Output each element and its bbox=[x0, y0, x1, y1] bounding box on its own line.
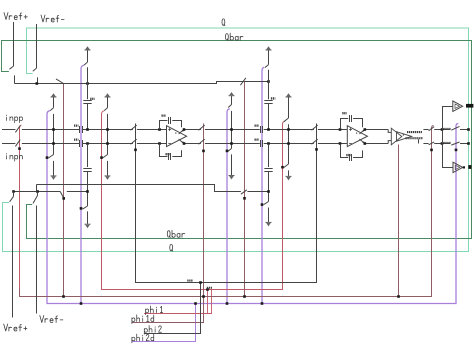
wire phi1 label stub (red) bbox=[144, 290, 211, 314]
port arrow down (x=107 column) bbox=[105, 176, 111, 180]
capacitor C11 (U2 top feedback) bbox=[350, 115, 352, 122]
label row1 net bbox=[443, 128, 451, 130]
wire switch to rail bbox=[87, 67, 89, 83]
label Qbar (bottom) bbox=[167, 230, 185, 237]
junction phi2d rail x=195.5 bbox=[194, 302, 197, 305]
buffer U4 inner mark bbox=[455, 104, 460, 108]
wire inpn line (node vin) segment 12 bbox=[460, 143, 469, 145]
switch S9 (phi2d) blade bbox=[50, 108, 53, 111]
capacitor C2 bbox=[83, 169, 91, 172]
node Q (light green net, top and bottom rails) bbox=[3, 28, 469, 252]
junction row2/buffer column bbox=[441, 142, 444, 145]
switch S5 (phi2d) blade bbox=[84, 62, 88, 65]
wire switch to lines bbox=[107, 114, 109, 155]
wire phi2 loop (black) bbox=[136, 124, 317, 283]
label inpn bbox=[7, 153, 23, 161]
junction phi2d tap bbox=[80, 207, 83, 210]
wire inpp line (node vip) segment 9 bbox=[365, 129, 389, 131]
port arrow (x=288.5 column) bbox=[286, 93, 292, 97]
switch S15 (line1, phi2) blade bbox=[131, 125, 137, 130]
wire phi1d label stub (dark red) bbox=[132, 297, 204, 323]
wire inpp line (node vip) segment 11 bbox=[434, 129, 450, 131]
switch S20 (phi2d) blade bbox=[228, 148, 231, 151]
label Q (top) bbox=[222, 19, 225, 26]
switch S22 (phi1) blade bbox=[284, 164, 289, 168]
label Vref+ (top) bbox=[4, 13, 27, 20]
junction line1 x=53 bbox=[52, 128, 55, 131]
wire arrow to switch bbox=[53, 97, 55, 107]
wire phi2d main loop (purple) bbox=[47, 111, 458, 304]
wire phi2d branch x=262 (purple) bbox=[262, 67, 264, 303]
label Q (bottom) bbox=[170, 244, 173, 251]
wire line2 to C4 bbox=[268, 144, 270, 168]
wire U1 bottom feedback bbox=[160, 144, 168, 157]
op-amp U1 input marks bbox=[168, 128, 176, 144]
junction phi2d tap bbox=[226, 150, 229, 153]
port arrow (top of C3 column) bbox=[266, 46, 272, 50]
junction line2/C1 bbox=[86, 142, 89, 145]
switch S14 (phi2d) blade bbox=[264, 202, 269, 205]
wire phi1d branch x=63.5 (dark red) bbox=[63, 84, 65, 297]
wire arrow to switch bbox=[268, 50, 270, 64]
junction phi2d rail x=262 bbox=[261, 302, 264, 305]
wire inpn line (node vin) segment 10 bbox=[423, 143, 428, 145]
junction U1 inn bbox=[158, 142, 161, 145]
wire phi1d main loop (dark red) bbox=[20, 125, 434, 296]
capacitor C9 (U1 top feedback) bbox=[169, 117, 171, 124]
wire ref rail upper bbox=[37, 185, 241, 192]
junction phi1 rail / label bbox=[206, 288, 209, 291]
junction row2/Qbar rail bbox=[467, 142, 470, 145]
port arrow (x=53 column) bbox=[51, 93, 57, 97]
port arrow (x=107 column) bbox=[105, 93, 111, 97]
wire stub Vref- bottom bbox=[37, 192, 39, 196]
junction U2 inp bbox=[339, 128, 342, 131]
port arrow down (C2 column) bbox=[85, 224, 91, 228]
junction line1 x=107 bbox=[106, 128, 109, 131]
wire row2 jog stub bbox=[418, 139, 420, 143]
port arrow down (x=53 column) bbox=[51, 176, 57, 180]
junction line1/C3 bbox=[267, 128, 270, 131]
wire inpp line (node vip) segment 8 bbox=[318, 129, 347, 131]
switch S10 (phi2d) blade bbox=[48, 155, 53, 159]
capacitor C6 (series, inpn) bbox=[80, 140, 83, 147]
wire ref rail upper right bbox=[247, 191, 268, 193]
wire phi1d branch x=398.5 (dark red) bbox=[398, 145, 400, 297]
junction phi1d rail x=63.5 bbox=[62, 295, 65, 298]
switch S16 (line2, phi2) blade bbox=[131, 139, 137, 144]
wire to buffer U4 bbox=[442, 106, 453, 108]
wire C2 to ref rail bbox=[87, 172, 89, 192]
junction rail/C1 column bbox=[86, 82, 89, 85]
switch S23 (line1, phi2) blade bbox=[312, 125, 318, 130]
label Vref- (bottom) bbox=[40, 316, 63, 323]
wire Vref- bottom drop bbox=[36, 206, 38, 314]
junction line2 x=231.5 bbox=[230, 142, 233, 145]
value label C10 bbox=[166, 153, 170, 155]
value label C9 bbox=[162, 114, 166, 116]
wire U1 bottom feedback right bbox=[172, 150, 181, 156]
wire inpn line (node vin) segment 2 bbox=[22, 143, 79, 145]
wire switch to lines bbox=[231, 111, 233, 148]
wire line2 to C2 bbox=[87, 144, 89, 168]
junction row1/buffer column bbox=[441, 128, 444, 131]
op-amp U2 output arrow - bbox=[359, 139, 364, 144]
wire S1 to rail bbox=[14, 75, 16, 83]
junction ref rail / C3 column bbox=[267, 190, 270, 193]
op-amp U2 input marks bbox=[349, 128, 357, 144]
junction phi2 tap bbox=[134, 149, 137, 152]
wire arrow to switch bbox=[87, 50, 89, 62]
wire inpn line (node vin) segment 4 bbox=[137, 143, 167, 145]
junction line2 x=107 bbox=[106, 142, 109, 145]
wire Vref+ bottom drop bbox=[12, 206, 14, 318]
wire U3 input jog + bbox=[388, 130, 391, 133]
switch S4 (rail, phi1d) blade bbox=[240, 78, 246, 85]
wire inpp line (node vip) segment 2 bbox=[22, 129, 79, 131]
label phi1 bbox=[146, 306, 163, 315]
junction phi1d tap bbox=[243, 197, 246, 200]
wire rail to C1 bbox=[87, 84, 89, 100]
switch S32 (Vref- bottom) blade bbox=[33, 196, 38, 204]
junction line1/C1 bbox=[86, 128, 89, 131]
comparator U3 internal dot bbox=[403, 134, 404, 135]
op-amp U1 output arrow - bbox=[179, 139, 184, 144]
label inpp bbox=[7, 115, 23, 123]
junction line1 x=288.5 bbox=[287, 128, 290, 131]
junction U1 outp bbox=[183, 128, 186, 131]
wire phi1d branch x=203.5 (dark red) bbox=[203, 124, 205, 297]
wire inpn line (node vin) segment 9 bbox=[365, 143, 389, 145]
wire arrow to switch bbox=[288, 97, 290, 118]
wire phi1d input branch (red upper) bbox=[20, 125, 22, 290]
wire phi1d branch x=244.5 (dark red) bbox=[244, 82, 246, 297]
junction U1 outn bbox=[183, 142, 186, 145]
wire switch to lines bbox=[288, 124, 290, 164]
wire C4 to ref rail bbox=[268, 172, 270, 192]
junction ref rail left end bbox=[12, 190, 15, 193]
junction phi2 rail / label bbox=[199, 281, 202, 284]
wire switch to arrow bbox=[107, 161, 109, 176]
switch S26 (row2, phi1d) blade bbox=[429, 142, 435, 145]
junction U1 inp bbox=[158, 128, 161, 131]
wire ref rail to switch bbox=[87, 192, 89, 207]
wire inpp line (node vip) segment 10 bbox=[423, 129, 428, 131]
wire switch to rail bbox=[268, 70, 270, 82]
value label C5 bbox=[74, 124, 78, 126]
wire to buffer U5 bbox=[442, 167, 453, 169]
junction phi1d tap bbox=[62, 197, 65, 200]
value label C6 bbox=[74, 138, 78, 140]
label Vref- (top) bbox=[41, 15, 64, 22]
wire U3 input jog - bbox=[388, 141, 391, 144]
buffer U5 triangle bbox=[453, 162, 463, 172]
wire ref rail lower bbox=[13, 191, 60, 193]
wire switch to lines bbox=[53, 114, 55, 155]
switch S13 (phi2d) blade bbox=[83, 206, 88, 209]
junction phi2d rail x=81 bbox=[80, 302, 83, 305]
port arrow down (C4 column) bbox=[266, 222, 272, 226]
buffer U5 output label (Qbar) bbox=[468, 165, 471, 169]
junction phi1d tap below inpn switch bbox=[18, 147, 21, 150]
wire switch to arrow bbox=[231, 154, 233, 175]
switch S30 (ref rail, phi1d) blade bbox=[60, 192, 63, 198]
wire inpp line (node vip) segment 6 bbox=[205, 129, 260, 131]
wire ref rail to switch bbox=[268, 192, 270, 202]
wire inpp line (node vip) segment 1 bbox=[2, 129, 15, 131]
wire switch to arrow bbox=[268, 208, 270, 223]
op-amp U1 triangle bbox=[167, 126, 187, 147]
capacitor C10 (U1 bottom feedback) bbox=[169, 153, 171, 160]
junction ref rail / Vref- branch bbox=[36, 190, 39, 193]
tiny net label phi1 bbox=[207, 287, 213, 289]
wire switch to arrow bbox=[53, 161, 55, 176]
node Qbar (dark green net, top and bottom rails) bbox=[2, 41, 472, 239]
wire stub Vref+ bottom bbox=[13, 192, 15, 197]
wire inpn line (node vin) segment 11 bbox=[434, 143, 450, 145]
wire U2 bottom feedback right bbox=[353, 150, 362, 157]
op-amp U1 output arrow + bbox=[179, 130, 184, 135]
value label C1 bbox=[90, 98, 94, 100]
capacitor C3 bbox=[264, 101, 272, 104]
switch S6 (phi2d) blade bbox=[265, 65, 269, 68]
wire arrow to switch bbox=[107, 97, 109, 107]
switch S1 (Vref+ to rail) blade bbox=[9, 66, 13, 69]
comparator U3 second stage triangle bbox=[397, 132, 412, 142]
value label C12 bbox=[346, 154, 350, 156]
wire inpn line (node vin) segment 8 bbox=[318, 143, 347, 145]
label phi1d bbox=[132, 315, 154, 324]
label Vref+ (bottom) bbox=[4, 324, 27, 331]
wire ref rail lower right bbox=[67, 191, 88, 193]
port arrow (top of C1 column) bbox=[85, 46, 91, 50]
wire switch to arrow bbox=[87, 211, 89, 224]
junction U2 inn bbox=[339, 142, 342, 145]
wire inpp line (node vip) segment 7 bbox=[264, 129, 314, 131]
wire C3 to line1 bbox=[268, 104, 270, 130]
wire Vref- drop bbox=[36, 24, 38, 68]
tiny net label phi2 bbox=[187, 280, 193, 282]
junction row1/Q rail bbox=[467, 128, 470, 131]
switch S31 (Vref+ bottom) blade bbox=[10, 196, 14, 201]
capacitor C1 bbox=[83, 101, 91, 104]
junction phi2d tap bbox=[46, 156, 49, 159]
wire top rail bbox=[15, 82, 269, 84]
wire U2 top feedback right bbox=[353, 119, 362, 128]
wire S2 to rail bbox=[37, 77, 39, 83]
value label C3 bbox=[271, 97, 275, 99]
switch S12 (phi1) blade bbox=[103, 155, 108, 159]
junction phi2d rail x=227 bbox=[226, 302, 229, 305]
comparator U3 output label n bbox=[406, 137, 423, 139]
wire U1 top feedback bbox=[160, 121, 168, 130]
junction ref rail / C2 column bbox=[86, 190, 89, 193]
junction rail/C3 column bbox=[267, 80, 270, 83]
junction line2 x=288.5 bbox=[287, 142, 290, 145]
wire inpn line (node vin) segment 5 bbox=[184, 143, 201, 145]
op-amp U2 output arrow + bbox=[359, 130, 364, 135]
junction U2 outn bbox=[364, 142, 367, 145]
capacitor C8 (series, line2) bbox=[261, 140, 263, 147]
junction line1 x=231.5 bbox=[230, 128, 233, 131]
junction phi1d rail x=398.5 bbox=[397, 295, 400, 298]
wire inpp line (node vip) segment 3 bbox=[83, 129, 133, 131]
wire C1 to inpp line bbox=[87, 104, 89, 130]
wire switch to arrow bbox=[288, 170, 290, 176]
wire inpn line (node vin) segment 3 bbox=[83, 143, 133, 145]
junction rail/Vref- bbox=[36, 82, 39, 85]
wire inpp line (node vip) segment 4 bbox=[137, 129, 167, 131]
switch S2 (Vref- to rail) blade bbox=[33, 68, 37, 71]
wire inpp line (node vip) segment 5 bbox=[184, 129, 201, 131]
wire phi2d label stub (purple) bbox=[132, 304, 196, 342]
wire phi2 label stub (black) bbox=[144, 283, 200, 334]
junction phi1d tap bbox=[202, 150, 205, 153]
junction line2 x=53 bbox=[52, 142, 55, 145]
wire U2 top feedback bbox=[341, 119, 349, 130]
switch S19 (phi2d) blade bbox=[228, 105, 231, 108]
switch S27 (row1, phi2d) blade bbox=[451, 126, 459, 130]
wire U2 bottom feedback bbox=[341, 144, 349, 158]
wire rail to C3 bbox=[268, 82, 270, 100]
switch S25 (row1, phi1d) blade bbox=[429, 127, 435, 131]
junction phi2d tap bbox=[261, 203, 264, 206]
wire U1 top feedback right bbox=[172, 121, 181, 128]
wire jog upper-lower rails bbox=[36, 185, 38, 192]
label phi2d bbox=[132, 334, 154, 343]
capacitor C7 (series, line1) bbox=[261, 126, 263, 133]
switch S29 (ref rail, phi1d) blade bbox=[241, 190, 247, 194]
port arrow down (x=231.5) bbox=[229, 176, 235, 180]
junction line2/C3 bbox=[267, 142, 270, 145]
switch S18 (line2, phi1d) blade bbox=[199, 139, 205, 144]
switch S24 (line2, phi2) blade bbox=[312, 139, 318, 144]
port arrow (x=231.5 column) bbox=[229, 92, 235, 96]
junction phi1d rail x=244.5 bbox=[243, 295, 246, 298]
label Qbar (top) bbox=[226, 33, 244, 40]
buffer U4 output label (Q) bbox=[466, 104, 473, 108]
capacitor C5 (series, inpp) bbox=[80, 126, 83, 133]
junction phi1 tap bbox=[281, 166, 284, 169]
wire phi2d branch x=81 (purple) bbox=[81, 65, 84, 303]
switch S8 (inpn input, phi1d) blade bbox=[15, 140, 20, 147]
capacitor C4 bbox=[264, 169, 272, 172]
wire buffer column bbox=[442, 107, 444, 168]
switch S3 (rail, phi1d) blade bbox=[56, 79, 64, 84]
wire inpn line (node vin) segment 1 bbox=[2, 143, 15, 145]
value label C8 bbox=[255, 138, 259, 140]
switch S28 (row2, phi2d) blade bbox=[451, 142, 459, 145]
wire phi1 loop (red) bbox=[102, 111, 286, 290]
junction phi1 tap bbox=[100, 156, 103, 159]
buffer U4 triangle bbox=[453, 101, 463, 111]
comparator U3 first stage triangle bbox=[391, 128, 402, 145]
value label C11 bbox=[342, 112, 346, 114]
junction phi2 tap bbox=[315, 148, 318, 151]
junction phi1d tap bbox=[430, 149, 433, 152]
junction phi1d rail x=203.5 bbox=[202, 295, 205, 298]
wire Vref+ drop bbox=[13, 22, 15, 66]
port arrow down (x=288.5) bbox=[286, 176, 292, 180]
buffer U5 inner mark bbox=[455, 165, 460, 169]
switch S7 (inpp input, phi1d) blade bbox=[15, 126, 20, 133]
value label C7 bbox=[255, 124, 259, 126]
wire inpp line (node vip) segment 12 bbox=[460, 129, 469, 131]
wire arrow to switch bbox=[231, 96, 233, 104]
comparator U3 output label p bbox=[407, 131, 422, 133]
label phi2 bbox=[144, 326, 161, 335]
switch S21 (phi1) blade bbox=[284, 118, 289, 122]
junction buffer U5 output bbox=[463, 166, 465, 168]
switch S17 (line1, phi1d) blade bbox=[199, 125, 205, 130]
capacitor C12 (U2 bottom feedback) bbox=[350, 154, 352, 161]
switch S11 (phi1) blade bbox=[104, 108, 107, 111]
wire inpn line (node vin) segment 7 bbox=[264, 143, 314, 145]
junction U2 outp bbox=[364, 128, 367, 131]
junction phi2d tap bbox=[455, 149, 458, 152]
op-amp U2 triangle bbox=[347, 126, 367, 147]
wire phi2d branch x=227 (purple) bbox=[227, 109, 230, 304]
wire inpn line (node vin) segment 6 bbox=[205, 143, 260, 145]
label row2 net bbox=[443, 142, 451, 144]
